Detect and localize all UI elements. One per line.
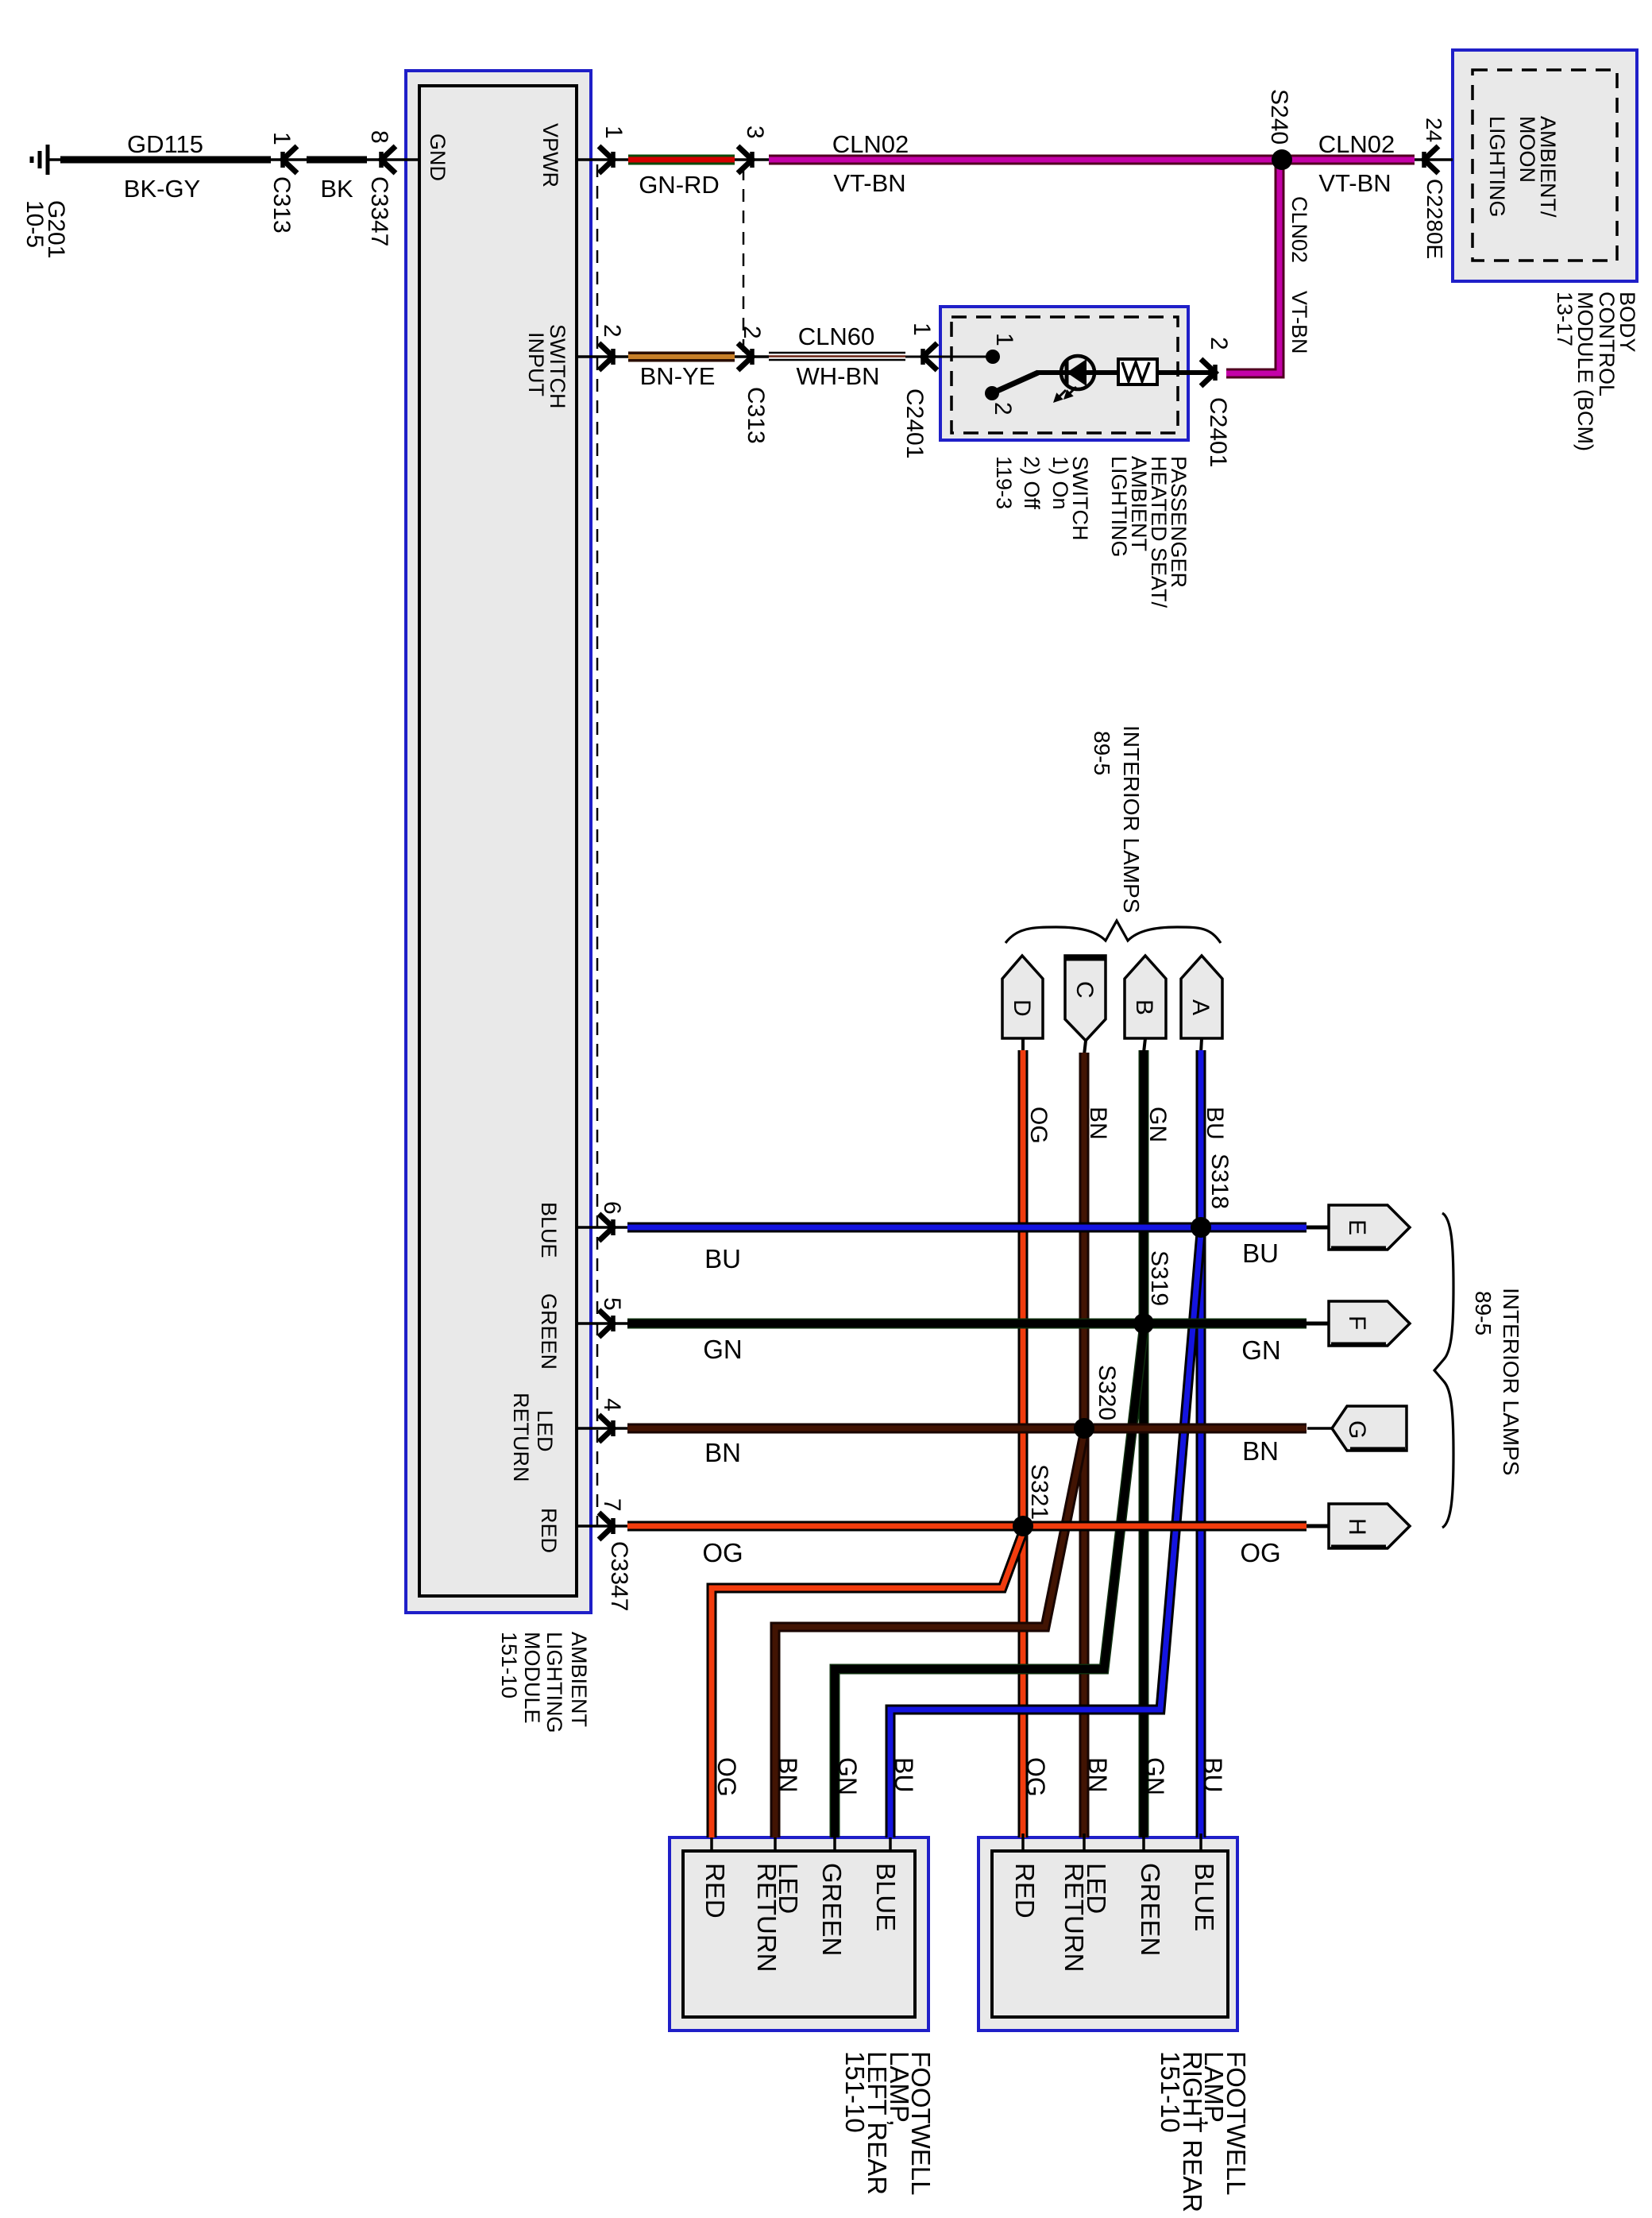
svg-text:GREEN: GREEN — [537, 1293, 561, 1370]
svg-text:OG: OG — [712, 1757, 741, 1797]
svg-text:BLUE: BLUE — [1190, 1863, 1219, 1931]
svg-text:OG: OG — [1240, 1538, 1280, 1567]
svg-text:13-17: 13-17 — [1553, 292, 1577, 346]
svg-text:119-3: 119-3 — [992, 456, 1016, 509]
svg-text:89-5: 89-5 — [1090, 731, 1114, 775]
svg-text:BU: BU — [890, 1757, 918, 1792]
svg-text:8: 8 — [366, 130, 392, 144]
svg-text:BU: BU — [1242, 1238, 1279, 1268]
svg-text:C2280E: C2280E — [1422, 179, 1447, 259]
svg-text:4: 4 — [599, 1398, 625, 1412]
svg-text:C313: C313 — [743, 387, 769, 444]
svg-text:GN: GN — [833, 1757, 862, 1795]
svg-text:151-10: 151-10 — [1156, 2051, 1185, 2133]
svg-text:BN: BN — [704, 1438, 741, 1467]
svg-text:RED: RED — [1010, 1863, 1040, 1919]
svg-text:C2401: C2401 — [1205, 397, 1231, 467]
svg-text:VT-BN: VT-BN — [1287, 291, 1311, 354]
svg-text:LIGHTING: LIGHTING — [542, 1632, 566, 1733]
svg-text:89-5: 89-5 — [1471, 1291, 1496, 1335]
svg-text:SWITCH: SWITCH — [546, 324, 569, 408]
svg-text:MODULE: MODULE — [520, 1632, 544, 1724]
svg-text:C: C — [1071, 981, 1098, 999]
svg-text:CLN60: CLN60 — [798, 323, 875, 350]
svg-text:D: D — [1009, 999, 1035, 1017]
svg-text:VT-BN: VT-BN — [833, 169, 905, 197]
svg-text:BN: BN — [1083, 1757, 1112, 1792]
svg-text:151-10: 151-10 — [497, 1632, 521, 1698]
svg-text:3: 3 — [742, 126, 768, 139]
svg-text:A: A — [1187, 999, 1214, 1015]
svg-text:CONTROL: CONTROL — [1595, 292, 1619, 396]
svg-text:BU: BU — [704, 1244, 741, 1273]
svg-text:BLUE: BLUE — [871, 1863, 901, 1931]
svg-text:GN-RD: GN-RD — [639, 171, 720, 199]
svg-text:LIGHTING: LIGHTING — [1107, 456, 1131, 558]
svg-text:RED: RED — [701, 1863, 730, 1919]
svg-text:10-5: 10-5 — [21, 200, 48, 248]
svg-text:S320: S320 — [1094, 1365, 1120, 1420]
svg-text:6: 6 — [599, 1201, 625, 1215]
svg-text:CLN02: CLN02 — [1318, 130, 1395, 158]
svg-text:2: 2 — [599, 324, 625, 338]
svg-text:GN: GN — [1144, 1107, 1171, 1142]
svg-text:BK: BK — [320, 175, 353, 203]
svg-text:BLUE: BLUE — [537, 1202, 561, 1258]
svg-text:1) On: 1) On — [1048, 456, 1072, 510]
svg-text:GREEN: GREEN — [817, 1863, 847, 1956]
svg-text:BN: BN — [1085, 1107, 1111, 1140]
svg-text:RETURN: RETURN — [509, 1393, 533, 1482]
svg-text:S318: S318 — [1206, 1153, 1233, 1209]
svg-text:BN: BN — [774, 1757, 802, 1792]
svg-text:2: 2 — [1206, 337, 1232, 350]
svg-text:GND: GND — [426, 133, 450, 181]
svg-text:7: 7 — [599, 1498, 625, 1512]
svg-text:2: 2 — [739, 326, 765, 339]
svg-text:G: G — [1344, 1420, 1370, 1439]
svg-text:GN: GN — [703, 1335, 743, 1364]
svg-text:INTERIOR LAMPS: INTERIOR LAMPS — [1119, 725, 1144, 913]
svg-text:BN-YE: BN-YE — [640, 362, 716, 390]
svg-text:RED: RED — [537, 1508, 561, 1553]
svg-text:RETURN: RETURN — [1060, 1863, 1089, 1973]
svg-text:CLN02: CLN02 — [1287, 196, 1311, 263]
svg-text:OG: OG — [702, 1538, 743, 1567]
svg-text:S319: S319 — [1146, 1250, 1172, 1306]
svg-text:GD115: GD115 — [127, 130, 203, 158]
svg-text:1: 1 — [991, 333, 1017, 346]
svg-text:OG: OG — [1025, 1107, 1052, 1144]
svg-text:S240: S240 — [1266, 89, 1292, 145]
svg-text:C313: C313 — [268, 176, 295, 234]
svg-text:VT-BN: VT-BN — [1318, 169, 1391, 197]
svg-text:BU: BU — [1198, 1757, 1227, 1792]
svg-text:INPUT: INPUT — [524, 332, 548, 396]
svg-text:H: H — [1344, 1518, 1370, 1536]
svg-text:C2401: C2401 — [901, 388, 928, 458]
svg-text:B: B — [1131, 999, 1157, 1015]
svg-text:AMBIENT: AMBIENT — [567, 1632, 591, 1727]
svg-text:GREEN: GREEN — [1136, 1863, 1165, 1956]
svg-text:2) Off: 2) Off — [1020, 456, 1044, 510]
svg-text:F: F — [1344, 1316, 1370, 1330]
svg-text:VPWR: VPWR — [538, 123, 562, 187]
svg-text:1: 1 — [909, 323, 935, 336]
svg-text:1: 1 — [600, 126, 627, 139]
svg-text:WH-BN: WH-BN — [796, 362, 879, 390]
svg-text:1: 1 — [268, 132, 295, 145]
svg-text:S321: S321 — [1026, 1464, 1052, 1520]
svg-text:LED: LED — [533, 1410, 557, 1452]
svg-text:24: 24 — [1422, 118, 1446, 142]
svg-text:C3347: C3347 — [606, 1541, 632, 1611]
svg-text:GN: GN — [1241, 1335, 1281, 1365]
svg-text:INTERIOR LAMPS: INTERIOR LAMPS — [1499, 1288, 1523, 1475]
svg-text:GN: GN — [1141, 1757, 1169, 1795]
svg-text:5: 5 — [599, 1297, 625, 1311]
svg-text:CLN02: CLN02 — [832, 130, 909, 158]
svg-text:E: E — [1344, 1219, 1370, 1235]
svg-text:MOON: MOON — [1515, 116, 1539, 183]
svg-text:BN: BN — [1242, 1436, 1279, 1466]
svg-text:151-10: 151-10 — [840, 2051, 870, 2133]
svg-text:OG: OG — [1021, 1757, 1050, 1797]
svg-text:2: 2 — [990, 402, 1016, 415]
svg-text:LIGHTING: LIGHTING — [1485, 116, 1509, 218]
svg-text:BK-GY: BK-GY — [124, 175, 200, 203]
svg-text:C3347: C3347 — [366, 176, 392, 246]
svg-text:BU: BU — [1202, 1107, 1228, 1140]
svg-text:RETURN: RETURN — [752, 1863, 782, 1973]
